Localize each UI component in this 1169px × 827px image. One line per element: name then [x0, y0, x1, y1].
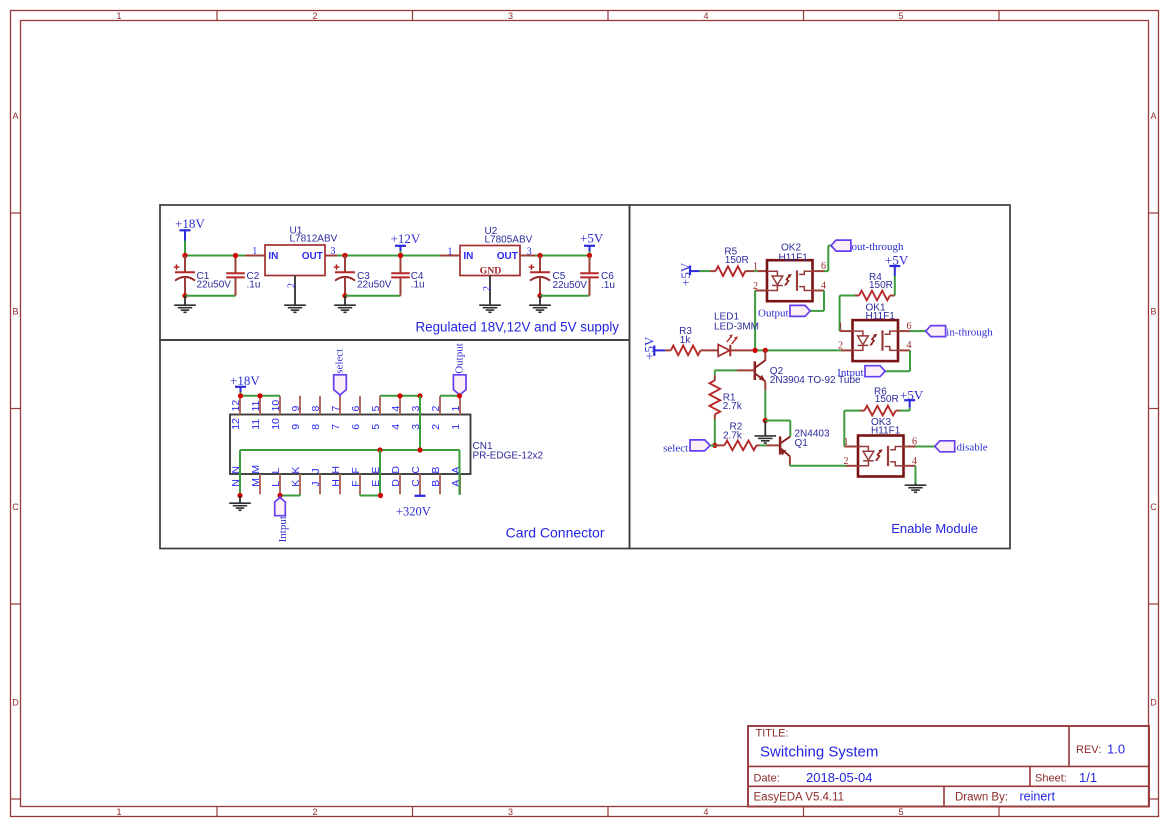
svg-text:2: 2 [287, 283, 298, 288]
pin stub OK1 pin1 [840, 330, 853, 332]
svg-text:5: 5 [898, 807, 903, 817]
svg-text:6: 6 [350, 406, 362, 412]
svg-text:2: 2 [482, 286, 493, 291]
svg-text:4: 4 [390, 424, 402, 430]
ground under U2 [479, 305, 501, 312]
svg-text:11: 11 [250, 419, 262, 430]
node junction C1 top [182, 253, 187, 258]
power flag +5V (R4) [885, 253, 909, 277]
pin 3 stub of U2 [520, 255, 535, 257]
ground under U1 [284, 305, 306, 312]
wire +18V to rail [184, 241, 186, 256]
wire OK3 pin4 to ground [915, 466, 917, 483]
wire bus to N [239, 450, 241, 496]
svg-text:+18V: +18V [175, 216, 205, 231]
svg-text:H11F1: H11F1 [871, 425, 901, 436]
svg-text:3: 3 [508, 11, 513, 21]
svg-text:Regulated 18V,12V and 5V suppl: Regulated 18V,12V and 5V supply [415, 320, 619, 335]
svg-text:4: 4 [703, 807, 708, 817]
svg-text:10: 10 [270, 400, 282, 412]
svg-text:2: 2 [430, 424, 442, 430]
power flag +5V (R3) [642, 336, 666, 360]
svg-text:K: K [290, 467, 302, 474]
svg-text:F: F [350, 480, 362, 486]
wire U1 out to C3/C4/U2 [337, 255, 440, 257]
wire R6 right to +5V [900, 410, 910, 412]
wire gnd node to Q1 collector [765, 420, 790, 422]
svg-text:LED-3MM: LED-3MM [714, 321, 759, 332]
svg-text:9: 9 [290, 406, 302, 412]
wire +5V stem [589, 251, 591, 256]
svg-text:C: C [410, 466, 422, 474]
svg-text:H11F1: H11F1 [779, 252, 809, 263]
svg-text:2.7k: 2.7k [723, 401, 743, 412]
svg-text:Output: Output [453, 343, 465, 374]
svg-text:D: D [12, 698, 19, 708]
svg-text:.1u: .1u [411, 280, 425, 291]
svg-text:D: D [390, 479, 402, 487]
svg-text:1: 1 [844, 437, 849, 448]
node junction bus pin3 [417, 447, 422, 452]
wire R4 to OK1 pin1 [840, 295, 855, 297]
svg-text:2: 2 [312, 11, 317, 21]
svg-text:C: C [410, 479, 422, 487]
ground under OK3 [915, 483, 917, 485]
wire R6 to OK3 pin1 [844, 410, 860, 412]
svg-text:2: 2 [312, 807, 317, 817]
power flag +12V [391, 231, 421, 251]
node junction bus E [377, 447, 382, 452]
svg-text:6: 6 [350, 424, 362, 430]
svg-text:J: J [310, 468, 322, 473]
svg-text:150R: 150R [875, 394, 899, 405]
svg-text:TITLE:: TITLE: [756, 728, 789, 740]
node junction C3 bottom [342, 293, 347, 298]
resistor R5 [710, 266, 754, 276]
wire Q2 base [737, 369, 754, 371]
node junction L [277, 493, 282, 498]
wire OK1 pin4 to Intput [909, 350, 911, 371]
svg-text:in-through: in-through [946, 326, 993, 338]
wire LED1 to node [730, 349, 755, 351]
op U1 pin1 stub [245, 255, 265, 257]
wire OK3 pin6 to disable [916, 446, 935, 448]
resistor R6 [860, 406, 900, 416]
ground under C5 [539, 296, 541, 305]
node junction C2 top [233, 253, 238, 258]
svg-text:3: 3 [331, 246, 336, 257]
svg-text:M: M [250, 465, 262, 474]
svg-text:B: B [430, 480, 442, 487]
svg-text:1: 1 [450, 424, 462, 430]
svg-text:22u50V: 22u50V [197, 280, 232, 291]
port out-through [831, 240, 904, 253]
ground under C3 [344, 296, 346, 305]
capacitor C4 [391, 256, 410, 296]
svg-text:+5V: +5V [580, 231, 604, 246]
node junction Q2 collector [763, 348, 768, 353]
pin stub OK3 pin1 [844, 446, 858, 448]
svg-text:150R: 150R [869, 280, 893, 291]
svg-text:Intput: Intput [277, 516, 289, 542]
svg-text:select: select [663, 443, 688, 455]
wire OK1 pin6 to in-through [910, 330, 926, 332]
svg-text:D: D [390, 466, 402, 474]
node junction select/R1/R2 [712, 443, 717, 448]
pin 3 stub of U1 [325, 255, 337, 257]
node junction pin1 [457, 393, 462, 398]
wire pins 5-4-3 [380, 395, 420, 397]
power flag +5V supply [580, 231, 604, 251]
wire C1-C2 bottom [185, 295, 236, 297]
svg-text:.1u: .1u [247, 280, 261, 291]
wire R3 to LED1 [701, 349, 719, 351]
port select (card) [334, 349, 347, 397]
node junction C4 top [398, 253, 403, 258]
svg-text:GND: GND [480, 266, 502, 277]
svg-text:B: B [1150, 307, 1156, 317]
svg-text:select: select [334, 349, 346, 374]
svg-text:7: 7 [330, 424, 342, 430]
optocoupler OK1 [853, 320, 899, 361]
svg-text:Output: Output [758, 307, 789, 319]
wire base to R1 [714, 370, 716, 375]
wire C5-C6 bottom [540, 295, 590, 297]
LED LED1 [718, 334, 738, 356]
wire rail C1 to U1 pin1 [185, 255, 245, 257]
svg-text:3: 3 [527, 247, 532, 258]
power flag +5V (R5) [678, 262, 700, 286]
svg-text:IN: IN [463, 251, 473, 262]
svg-text:F: F [350, 467, 362, 473]
wire +5V to R4 [894, 276, 896, 296]
pin stub OK1 pin6 [898, 330, 910, 332]
svg-text:K: K [290, 480, 302, 487]
svg-text:1/1: 1/1 [1079, 770, 1097, 785]
svg-text:Sheet:: Sheet: [1035, 773, 1067, 785]
svg-text:1.0: 1.0 [1107, 741, 1125, 756]
svg-text:1: 1 [450, 406, 462, 412]
wire +5V to R5 [700, 270, 710, 272]
ground at Q2 emitter [764, 421, 766, 436]
node junction C6 top [587, 253, 592, 258]
port select (enable) [663, 440, 710, 455]
svg-text:4: 4 [390, 406, 402, 412]
pin stub OK3 pin6 [904, 446, 916, 448]
resistor R2 [715, 441, 760, 451]
svg-text:4: 4 [703, 11, 708, 21]
svg-text:.1u: .1u [601, 280, 615, 291]
node junction C1 bottom [182, 293, 187, 298]
svg-text:10: 10 [270, 418, 282, 430]
svg-text:L7805ABV: L7805ABV [485, 234, 533, 245]
CN1 top pin stubs [240, 396, 460, 415]
wire OK2 pin2 down [754, 291, 756, 351]
svg-text:J: J [310, 481, 322, 486]
op-amp U2 regulator box [460, 246, 520, 276]
port Output (card) [453, 343, 466, 396]
wire U2 out to C5 C6 [535, 255, 590, 257]
wire +12V stem [400, 251, 402, 256]
node junction Q2emitter/gnd [763, 418, 768, 423]
capacitor C1 [174, 256, 195, 296]
node junction LED/OK2pin2 [753, 348, 758, 353]
pin stub OK2 pin4 [813, 290, 825, 292]
node junction N [237, 493, 242, 498]
wire R2 to Q1 base [760, 444, 766, 446]
svg-text:+12V: +12V [391, 231, 421, 246]
svg-text:Drawn By:: Drawn By: [955, 792, 1008, 804]
transistor Q1 [766, 436, 790, 464]
capacitor C6 [580, 256, 599, 296]
wire L to K [280, 495, 300, 497]
wire R1 to select node [714, 420, 716, 446]
power flag +18V [175, 216, 205, 241]
svg-text:3: 3 [508, 807, 513, 817]
pin 2 stem of U2 [489, 276, 491, 306]
resistor R4 [855, 291, 895, 301]
wire Q1 emitter to OK3 pin2 [789, 465, 791, 466]
svg-text:1: 1 [448, 247, 453, 258]
port Intput (enable) [837, 366, 885, 379]
port Intput (card) [275, 496, 289, 543]
svg-text:EasyEDA V5.4.11: EasyEDA V5.4.11 [754, 792, 845, 804]
op-amp U1 regulator box [265, 245, 325, 276]
svg-text:1: 1 [252, 246, 257, 257]
power flag +320V [396, 494, 431, 518]
svg-text:reinert: reinert [1020, 789, 1056, 803]
wire node to OK1 pin2 [755, 349, 841, 351]
svg-text:H: H [330, 466, 342, 474]
svg-text:12: 12 [230, 418, 242, 430]
wire bus to E [379, 450, 381, 496]
svg-text:Switching System: Switching System [760, 744, 878, 761]
svg-text:1k: 1k [680, 335, 692, 346]
wire Q2 emitter down [764, 390, 766, 420]
wire OK2 pin4 to Output [823, 291, 825, 311]
resistor R3 [665, 346, 700, 356]
svg-text:1: 1 [116, 11, 121, 21]
svg-text:out-through: out-through [852, 241, 904, 253]
power flag +5V (R6) [900, 387, 924, 408]
svg-text:5: 5 [370, 424, 382, 430]
node junction pin4 [397, 393, 402, 398]
svg-text:L: L [270, 468, 282, 474]
svg-text:5: 5 [898, 11, 903, 21]
svg-text:2018-05-04: 2018-05-04 [806, 770, 873, 785]
svg-text:5: 5 [370, 406, 382, 412]
pin stub OK3 pin4 [904, 465, 916, 467]
pin stub OK2 pin6 [813, 270, 825, 272]
svg-text:2.7k: 2.7k [723, 431, 743, 442]
svg-text:11: 11 [250, 400, 262, 411]
svg-text:IN: IN [268, 251, 278, 262]
node junction C3 top [342, 253, 347, 258]
pin stub OK2 pin1 [757, 270, 767, 272]
port in-through [926, 326, 994, 339]
node junction E [378, 493, 383, 498]
svg-text:A: A [12, 111, 18, 121]
svg-text:9: 9 [290, 424, 302, 430]
node junction pin11 [257, 393, 262, 398]
wire internal bus [240, 449, 460, 451]
svg-text:L7812ABV: L7812ABV [290, 234, 338, 245]
svg-text:B: B [430, 467, 442, 474]
title block table [748, 726, 1149, 807]
svg-text:1: 1 [753, 262, 758, 273]
svg-text:7: 7 [330, 406, 342, 412]
svg-text:C: C [1150, 502, 1157, 512]
svg-text:2: 2 [430, 406, 442, 412]
wire OK2 pin6 to out-through [824, 270, 828, 272]
connector CN1 body [230, 415, 471, 475]
port Output (enable) [758, 305, 810, 319]
svg-text:1: 1 [116, 807, 121, 817]
svg-text:Card Connector: Card Connector [506, 525, 605, 541]
svg-text:+320V: +320V [396, 505, 431, 519]
wire F to E [360, 495, 381, 497]
svg-text:A: A [1150, 111, 1156, 121]
CN1 top pin numbers [230, 400, 462, 430]
svg-text:PR-EDGE-12x2: PR-EDGE-12x2 [473, 450, 544, 461]
pin stub OK3 pin2 [846, 465, 858, 467]
svg-text:2N3904 TO-92 Tube: 2N3904 TO-92 Tube [770, 375, 861, 386]
svg-text:REV:: REV: [1076, 744, 1101, 756]
svg-text:D: D [1150, 698, 1157, 708]
svg-text:Date:: Date: [754, 773, 780, 785]
svg-text:OUT: OUT [497, 251, 518, 262]
svg-text:M: M [250, 478, 262, 487]
svg-text:H11F1: H11F1 [866, 311, 896, 322]
resistor R1 [710, 375, 721, 419]
wire R5 to OK2 [754, 270, 757, 272]
svg-text:22u50V: 22u50V [357, 280, 392, 291]
svg-text:22u50V: 22u50V [553, 280, 588, 291]
optocoupler OK2 [767, 260, 813, 301]
transistor Q2 [755, 350, 766, 390]
svg-text:Enable Module: Enable Module [891, 521, 978, 536]
section: enable module [630, 205, 1011, 549]
wire pin3 down to bus [419, 396, 421, 450]
wire +5V to R6 [909, 408, 911, 411]
svg-text:OUT: OUT [302, 251, 323, 262]
capacitor C5 [529, 256, 550, 296]
optocoupler OK3 [858, 436, 904, 477]
pin1 stub U2 [440, 255, 460, 257]
section: card connector [160, 340, 630, 549]
power flag +18V card [230, 373, 260, 392]
svg-text:8: 8 [310, 406, 322, 412]
wire select to node [710, 444, 715, 446]
CN1 bottom pin letters [230, 465, 462, 487]
ground under C1 [184, 296, 186, 305]
node junction C5 top [537, 253, 542, 258]
svg-text:12: 12 [230, 400, 242, 412]
ground under pin N [239, 496, 241, 504]
pin stub OK1 pin2 [841, 349, 853, 351]
port disable [935, 441, 988, 454]
svg-text:B: B [12, 307, 18, 317]
svg-text:L: L [270, 481, 282, 487]
section: regulated supply [160, 205, 630, 340]
capacitor C2 [226, 256, 245, 296]
pin stub OK2 pin2 [755, 290, 767, 292]
svg-text:1: 1 [838, 321, 843, 332]
node junction pin3 [417, 393, 422, 398]
wire pin2 to pin1 Output [440, 395, 460, 397]
pin stub OK1 pin4 [898, 349, 910, 351]
CN1 bottom pin stubs [240, 474, 460, 494]
node junction C5 bottom [537, 293, 542, 298]
svg-text:C: C [12, 502, 19, 512]
capacitor C3 [334, 256, 355, 296]
svg-text:150R: 150R [725, 255, 749, 266]
pin 2 stem of U1 [294, 276, 296, 306]
wire +18V to pins 12 11 10 [240, 392, 242, 396]
node junction pin12 [238, 393, 243, 398]
wire C3-C4 bottom [345, 295, 401, 297]
svg-text:8: 8 [310, 424, 322, 430]
svg-text:disable: disable [957, 441, 988, 453]
svg-text:H: H [330, 479, 342, 487]
svg-text:Q1: Q1 [795, 438, 809, 449]
wire bus to A [459, 450, 461, 495]
